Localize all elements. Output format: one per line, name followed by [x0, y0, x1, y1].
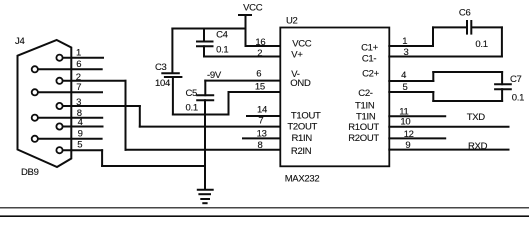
wire VCC stem down to pin 16 row [245, 15, 247, 46]
svg-text:C1-: C1- [362, 53, 377, 64]
capacitor C4 bottom plate [196, 45, 214, 47]
wire C3 to GND net horizontal [173, 114, 229, 116]
svg-text:T1OUT: T1OUT [291, 111, 321, 122]
ground symbol bar 3 [200, 198, 210, 200]
power symbol VCC bar [238, 14, 252, 16]
svg-text:9: 9 [78, 128, 83, 139]
capacitor C7 top plate [494, 83, 512, 85]
svg-text:T2OUT: T2OUT [287, 122, 317, 133]
capacitor C3 top plate [161, 72, 180, 74]
svg-text:16: 16 [255, 37, 265, 48]
wire C2+ pin 4 [389, 80, 433, 82]
wire J4 pin 2 to R2IN (horizontal) [64, 80, 126, 82]
svg-text:TXD: TXD [467, 112, 486, 123]
wire C5 top stem [204, 81, 206, 96]
svg-text:R2OUT: R2OUT [348, 133, 379, 144]
wire J4 pin 2 vertical drop [125, 81, 127, 150]
svg-text:8: 8 [258, 140, 263, 151]
wire R1OUT pin 12 stub [389, 137, 445, 139]
svg-text:C2+: C2+ [362, 68, 380, 79]
wire V- pin 6 [205, 80, 280, 82]
wire J4 pin 7 stub [39, 91, 102, 93]
svg-text:7: 7 [76, 82, 81, 93]
wire C7 top horizontal [433, 71, 502, 73]
wire VCC top rail [172, 28, 245, 30]
svg-text:MAX232: MAX232 [285, 174, 320, 185]
wire C7 bottom horizontal [433, 100, 502, 102]
svg-text:14: 14 [257, 105, 267, 116]
connector J4 outline (DB9 body) [18, 40, 72, 167]
wire V+ pin 2 [204, 56, 281, 58]
op-amp U2 chip body MAX232 [280, 28, 389, 167]
wire C6 left vertical [432, 27, 434, 46]
wire R1IN pin 13 stub [243, 137, 281, 139]
wire J4 pin 3 to T2OUT (horizontal) [64, 105, 140, 107]
wire C7 left vertical upper [432, 72, 434, 81]
svg-text:R1OUT: R1OUT [348, 122, 379, 133]
svg-text:13: 13 [257, 129, 267, 140]
J4 pin 4 circle [56, 123, 62, 129]
wire J4 pin 9 stub [39, 138, 102, 140]
wire J4 pin 8 stub [39, 117, 102, 119]
wire OND pin 15 [229, 91, 281, 93]
wire left rail to C3 [171, 29, 173, 74]
wire J4 pin 5 vertical drop [101, 150, 103, 166]
J4 pin 3 circle [56, 103, 62, 109]
document rule bottom edge [0, 215, 529, 217]
svg-text:C3: C3 [155, 62, 167, 73]
capacitor C6 left plate [466, 20, 468, 35]
wire C7 left vertical lower [432, 92, 434, 101]
capacitor C7 bottom plate [494, 88, 512, 90]
svg-text:0.1: 0.1 [216, 44, 228, 55]
svg-text:C1+: C1+ [361, 43, 379, 54]
wire VCC pin 16 [246, 45, 281, 47]
ground symbol bar 2 [198, 193, 211, 195]
svg-text:R1IN: R1IN [292, 133, 313, 144]
svg-text:6: 6 [256, 69, 261, 80]
wire C5 bottom stem to ground [204, 100, 206, 189]
svg-text:DB9: DB9 [21, 167, 39, 178]
svg-text:-9V: -9V [207, 70, 222, 81]
J4 pin 5 circle [56, 147, 62, 153]
wire R2IN net (to U2 pin 8) [126, 149, 281, 151]
svg-text:U2: U2 [286, 15, 298, 26]
J4 pin 7 circle [32, 89, 38, 95]
capacitor C3 bottom plate [164, 76, 183, 78]
svg-text:2: 2 [257, 48, 262, 59]
svg-text:VCC: VCC [243, 3, 263, 14]
svg-text:C6: C6 [459, 8, 471, 19]
wire C1- pin 3 [389, 56, 502, 58]
svg-text:0.1: 0.1 [186, 102, 198, 113]
J4 pin 1 circle [56, 55, 62, 61]
wire GND net vertical to pin 15 row [228, 92, 230, 115]
wire C7 bottom stem [501, 89, 503, 101]
wire J4 pin 5 to ground rail (horizontal) [64, 149, 103, 151]
wire T1IN pin 10 [389, 126, 508, 128]
wire C1+ pin 1 [389, 45, 433, 47]
wire C4 top stem [203, 29, 205, 42]
svg-text:OND: OND [290, 78, 311, 89]
wire C6 right vertical [501, 27, 503, 56]
svg-text:0.1: 0.1 [475, 39, 487, 50]
J4 pin 8 circle [32, 115, 38, 121]
wire C2- pin 5 [389, 91, 433, 93]
document rule upper [0, 207, 529, 208]
svg-text:0.1: 0.1 [512, 92, 524, 103]
J4 pin 9 circle [32, 136, 38, 142]
wire C3 bottom stem [172, 78, 174, 115]
svg-text:5: 5 [77, 139, 82, 150]
wire C4 bottom stem [203, 46, 205, 56]
ground symbol bar 4 [202, 202, 207, 204]
wire T1OUT pin 14 stub [247, 115, 281, 117]
wire J4 pin 6 stub [39, 68, 102, 70]
svg-text:15: 15 [255, 82, 265, 93]
wire J4 pin 4 stub [64, 126, 103, 128]
svg-text:J4: J4 [15, 36, 24, 47]
svg-text:T1IN: T1IN [355, 100, 375, 111]
J4 pin 6 circle [32, 66, 38, 72]
svg-text:104: 104 [155, 78, 170, 89]
svg-text:7: 7 [258, 115, 263, 126]
svg-text:VCC: VCC [292, 39, 312, 50]
wire R2OUT pin 9 [389, 149, 508, 151]
wire J4 pin 3 vertical drop [139, 106, 141, 127]
wire J4 pin 1 stub [64, 57, 104, 59]
wire C6 left horizontal [433, 26, 466, 28]
capacitor C6 right plate [470, 20, 472, 35]
svg-text:T1IN: T1IN [356, 111, 376, 122]
svg-text:C2-: C2- [358, 88, 373, 99]
wire C6 right horizontal [472, 26, 502, 28]
svg-text:V+: V+ [291, 50, 303, 61]
wire ground rail [102, 165, 205, 167]
wire C7 top stem [501, 72, 503, 84]
wire T2OUT net (to U2 pin 7) [140, 126, 281, 128]
svg-text:4: 4 [401, 70, 406, 81]
svg-text:C5: C5 [186, 88, 198, 99]
J4 pin 2 circle [56, 78, 62, 84]
wire T1IN pin 11 stub [389, 115, 445, 117]
svg-text:C4: C4 [216, 30, 228, 41]
capacitor C5 bottom plate [196, 99, 214, 101]
capacitor C4 top plate [196, 41, 214, 43]
svg-text:R2IN: R2IN [291, 146, 312, 157]
ground symbol bar 1 [197, 189, 214, 191]
capacitor C5 top plate [196, 94, 214, 96]
